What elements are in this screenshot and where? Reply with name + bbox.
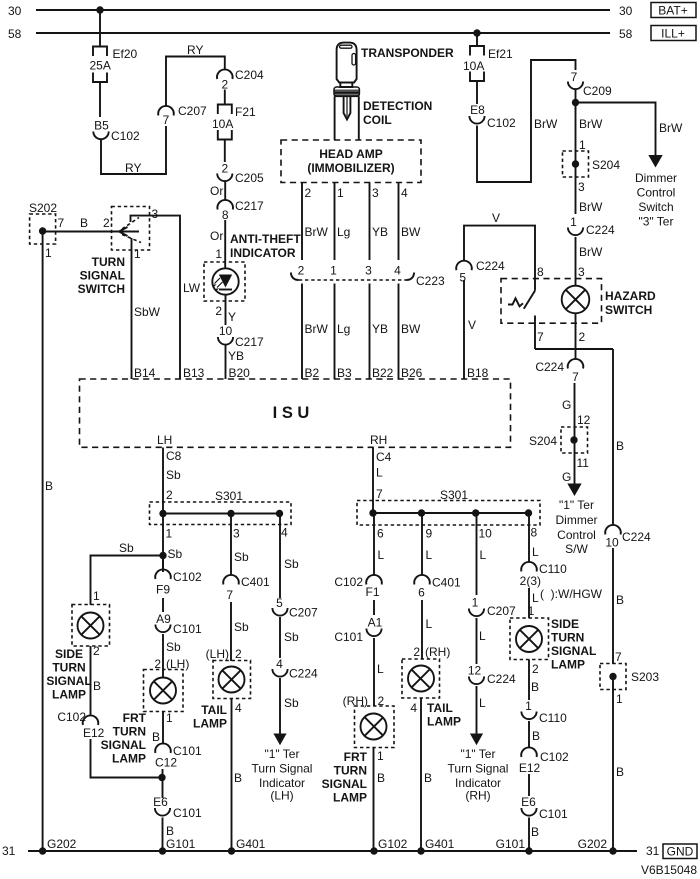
svg-text:1: 1	[134, 247, 141, 261]
svg-text:4: 4	[276, 657, 283, 671]
svg-text:G: G	[562, 398, 571, 412]
wire L S301 pin8 to C110	[529, 514, 539, 563]
svg-text:1: 1	[330, 264, 337, 278]
svg-text:12: 12	[577, 413, 591, 427]
wire B tail lamp RH to ground G401	[421, 698, 432, 851]
side turn signal lamp RH	[510, 617, 596, 676]
svg-text:1: 1	[570, 215, 577, 229]
wire B tail lamp LH to ground G401	[232, 699, 243, 852]
connector C401 pin 6 right	[414, 575, 461, 600]
svg-text:B: B	[93, 679, 101, 693]
head amp pin 2 wire BrW	[302, 183, 329, 261]
tail lamp LH	[193, 661, 251, 731]
svg-text:LAMP: LAMP	[112, 752, 146, 766]
svg-text:C217: C217	[235, 335, 264, 349]
svg-text:B22: B22	[372, 366, 394, 380]
svg-text:C401: C401	[241, 575, 270, 589]
svg-text:G202: G202	[47, 837, 77, 851]
svg-text:Sb: Sb	[234, 620, 249, 634]
svg-text:2: 2	[215, 304, 222, 318]
svg-text:L: L	[377, 662, 384, 676]
svg-text:SIGNAL: SIGNAL	[551, 644, 596, 658]
svg-text:10: 10	[605, 536, 619, 550]
svg-text:4: 4	[410, 701, 417, 715]
svg-text:S301: S301	[440, 488, 468, 502]
connector C209 pin 7	[568, 70, 612, 98]
connector C101 pin E6 left	[153, 795, 202, 820]
svg-text:B: B	[45, 479, 53, 493]
ground G202 right	[578, 837, 617, 855]
svg-text:6: 6	[377, 527, 384, 541]
svg-text:L: L	[426, 548, 433, 562]
svg-text:Lg: Lg	[337, 225, 350, 239]
svg-text:GND: GND	[667, 845, 694, 859]
svg-text:12: 12	[468, 664, 482, 678]
svg-text:LH: LH	[157, 433, 172, 447]
svg-text:C102: C102	[111, 129, 140, 143]
connector C101 pin A9	[155, 612, 202, 636]
wire B C110 to C102 E12	[529, 721, 540, 748]
svg-text:S204: S204	[592, 158, 620, 172]
svg-text:SbW: SbW	[134, 305, 161, 319]
svg-text:Or: Or	[210, 229, 223, 243]
svg-text:BW: BW	[401, 225, 421, 239]
svg-text:L: L	[479, 629, 486, 643]
svg-text:2: 2	[221, 78, 228, 92]
wire LH C8 ISU to S301	[163, 448, 182, 514]
hazard switch	[501, 265, 656, 349]
connector C224 pin 4	[272, 657, 318, 681]
svg-text:B: B	[531, 825, 539, 839]
svg-text:Switch: Switch	[638, 200, 673, 214]
wire YB C217 to ISU B20	[226, 345, 251, 380]
svg-text:HEAD AMP: HEAD AMP	[319, 147, 383, 161]
connector C401 pin 7 left	[223, 575, 270, 602]
splice S204 lower	[529, 427, 588, 453]
side turn signal lamp LH	[46, 605, 109, 702]
ground G401 left	[228, 837, 266, 855]
svg-text:1: 1	[377, 749, 384, 763]
svg-text:BrW: BrW	[579, 117, 603, 131]
svg-text:LAMP: LAMP	[333, 791, 367, 805]
svg-text:BrW: BrW	[305, 225, 329, 239]
svg-text:S204: S204	[529, 434, 557, 448]
svg-text:10A: 10A	[463, 59, 484, 73]
svg-text:58: 58	[619, 27, 633, 41]
wire B frt lamp LH to C101 C12	[152, 712, 163, 745]
turn signal switch	[78, 207, 159, 297]
svg-text:SIGNAL: SIGNAL	[101, 738, 146, 752]
svg-text:1: 1	[93, 589, 100, 603]
svg-text:C224: C224	[586, 223, 615, 237]
svg-text:2(3): 2(3)	[520, 574, 541, 588]
svg-text:25A: 25A	[90, 59, 111, 73]
wire B hazard pin7 to S203	[613, 349, 624, 664]
svg-text:RH: RH	[370, 433, 387, 447]
ISU box	[80, 379, 511, 447]
svg-text:E8: E8	[470, 103, 485, 117]
svg-text:SIDE: SIDE	[551, 617, 579, 631]
svg-text:C204: C204	[235, 68, 264, 82]
ground G101 right	[496, 837, 533, 855]
wire V to hazard switch pin 8	[464, 211, 535, 291]
svg-text:RY: RY	[187, 43, 203, 57]
svg-text:FRT: FRT	[344, 750, 368, 764]
connector C205 pin 2	[217, 162, 264, 186]
arrow to turn signal indicator LH	[252, 734, 313, 803]
connector C102 pin E12 right	[519, 747, 569, 775]
svg-text:5: 5	[459, 271, 466, 285]
svg-text:B20: B20	[229, 366, 251, 380]
detection coil	[334, 87, 432, 140]
frt turn signal lamp LH	[101, 670, 183, 766]
wire L C401 to tail lamp RH	[413, 600, 450, 659]
wire line58 to fuse Ef21	[476, 33, 478, 46]
wire Or C217 to anti-theft indicator	[210, 220, 225, 269]
svg-text:V: V	[468, 318, 476, 332]
wire SbW turn signal switch pin1 to ISU B14	[132, 238, 161, 380]
svg-text:B: B	[166, 824, 174, 838]
svg-text:C207: C207	[178, 104, 207, 118]
svg-text:L: L	[532, 545, 539, 559]
svg-text:BrW: BrW	[659, 121, 683, 135]
svg-text:L: L	[426, 617, 433, 631]
wire hazard pin2 to C224 pin7	[575, 313, 577, 359]
arrow to dimmer control s/w "1" ter	[556, 484, 598, 557]
fuse Ef21 10A	[463, 46, 513, 81]
svg-text:SIGNAL: SIGNAL	[322, 777, 367, 791]
wire E12 to E6	[528, 774, 530, 796]
splice S204 upper	[563, 151, 621, 214]
wire F1 to A1	[373, 600, 375, 615]
bus line 30	[8, 4, 633, 18]
svg-text:5: 5	[276, 596, 283, 610]
wire Or C205 to C217	[210, 181, 225, 201]
svg-text:BAT+: BAT+	[658, 4, 687, 18]
connector C224 pin 10	[605, 525, 651, 550]
svg-text:SIDE: SIDE	[55, 647, 83, 661]
svg-text:ANTI-THEFT: ANTI-THEFT	[230, 232, 301, 246]
svg-text:B14: B14	[134, 366, 156, 380]
head amp pin 4 wire BW	[399, 183, 422, 261]
svg-text:Turn Signal: Turn Signal	[252, 762, 313, 776]
GND terminal box	[663, 844, 697, 859]
svg-text:Dimmer: Dimmer	[635, 171, 677, 185]
wire L C110 to side turn signal lamp RH	[528, 588, 539, 618]
wire B side lamp RH to C110 pin1	[529, 660, 539, 701]
svg-text:( ):W/HGW: ( ):W/HGW	[540, 587, 603, 601]
svg-text:COIL: COIL	[363, 113, 392, 127]
svg-text:S203: S203	[631, 670, 659, 684]
svg-text:F21: F21	[235, 105, 256, 119]
svg-text:1: 1	[472, 596, 479, 610]
svg-text:Sb: Sb	[166, 640, 181, 654]
svg-text:30: 30	[8, 4, 22, 18]
svg-text:7: 7	[376, 487, 383, 501]
svg-text:4: 4	[401, 186, 408, 200]
wire Sb C401 to tail lamp LH	[206, 602, 249, 661]
arrow to turn signal indicator RH	[448, 734, 509, 803]
ground G101 left	[159, 837, 196, 855]
head amp pin 1 wire Lg	[335, 183, 351, 261]
splice connector S301 left	[150, 489, 292, 541]
connector C101 pin E6 right	[521, 795, 568, 821]
svg-text:2: 2	[298, 264, 305, 278]
svg-text:Sb: Sb	[166, 468, 181, 482]
svg-text:3: 3	[365, 264, 372, 278]
wire Ef20 to B5	[99, 82, 101, 117]
wire line30 to fuse Ef20	[99, 10, 101, 47]
svg-text:1: 1	[45, 246, 52, 260]
svg-text:V6B15048: V6B15048	[641, 863, 697, 877]
wire G C224 pin7 to S204	[562, 383, 591, 484]
svg-text:"1" Ter: "1" Ter	[559, 498, 594, 512]
svg-text:2: 2	[166, 488, 173, 502]
ground G401 right	[417, 837, 454, 855]
wire L S301 pin6 to C102 F1	[374, 514, 385, 576]
svg-text:Sb: Sb	[234, 550, 249, 564]
wire L S301 pin9 to C401	[422, 514, 433, 576]
wire B frt lamp RH to ground G102	[374, 748, 386, 852]
connector C224 pin 7	[535, 359, 583, 384]
svg-text:2: 2	[103, 216, 110, 230]
svg-text:TURN: TURN	[334, 764, 367, 778]
svg-text:B: B	[616, 765, 624, 779]
wire F9 to A9	[162, 598, 164, 612]
tail lamp RH	[402, 659, 461, 729]
svg-text:Or: Or	[210, 184, 223, 198]
wire B side lamp LH to C102 E12	[91, 646, 102, 716]
svg-text:C12: C12	[155, 756, 177, 770]
ILL+ terminal box	[651, 26, 696, 41]
svg-text:7: 7	[226, 588, 233, 602]
svg-text:2: 2	[579, 330, 586, 344]
svg-text:11: 11	[577, 456, 590, 470]
wire BrW C209 to S204	[576, 103, 587, 215]
splice S202	[29, 201, 57, 260]
svg-text:(LH): (LH)	[270, 789, 293, 803]
svg-text:B5: B5	[94, 119, 109, 133]
svg-text:7: 7	[537, 330, 544, 344]
svg-text:TAIL: TAIL	[427, 701, 453, 715]
connector C217 pin 8	[217, 199, 264, 222]
svg-text:B: B	[616, 439, 624, 453]
arrow to dimmer control switch "3" ter	[635, 155, 677, 229]
BAT+ terminal box	[651, 3, 696, 18]
svg-text:C102: C102	[487, 116, 516, 130]
wire B from S202 to turn signal switch	[43, 216, 139, 232]
svg-text:9: 9	[426, 527, 433, 541]
svg-text:G401: G401	[236, 837, 266, 851]
svg-text:TURN: TURN	[92, 255, 125, 269]
svg-text:3: 3	[152, 207, 159, 221]
ground G102	[370, 837, 407, 855]
svg-text:2: 2	[235, 647, 242, 661]
svg-text:(LH): (LH)	[206, 647, 229, 661]
svg-text:58: 58	[8, 27, 22, 41]
svg-text:TURN: TURN	[551, 631, 584, 645]
connector C101 pin A1	[334, 616, 382, 645]
svg-text:ILL+: ILL+	[661, 27, 685, 41]
svg-text:LAMP: LAMP	[427, 715, 461, 729]
wire BW C223 pin4 to ISU B26	[399, 284, 423, 381]
ground bus 31	[2, 844, 660, 858]
wire Y LED to C217 pin10	[215, 295, 236, 325]
svg-text:F1: F1	[365, 585, 379, 599]
svg-text:1: 1	[166, 711, 173, 725]
bus line 58	[8, 27, 633, 41]
svg-text:G202: G202	[578, 837, 608, 851]
connector C207 pin 1	[469, 596, 516, 619]
svg-text:I S U: I S U	[273, 404, 310, 422]
svg-text:B3: B3	[337, 366, 352, 380]
svg-text:7: 7	[615, 650, 622, 664]
connector C207 pin 7	[158, 104, 207, 127]
svg-text:10A: 10A	[212, 117, 233, 131]
svg-text:6: 6	[418, 586, 425, 600]
wire F21 to C205	[224, 140, 226, 163]
svg-text:3: 3	[578, 265, 585, 279]
svg-text:L: L	[378, 548, 385, 562]
wire B S203 to ground G202	[613, 677, 624, 852]
svg-text:B: B	[616, 593, 624, 607]
svg-text:1: 1	[337, 186, 344, 200]
svg-text:BrW: BrW	[579, 200, 603, 214]
svg-text:B2: B2	[305, 366, 320, 380]
wire L C207 pin1 to C224 pin12	[477, 618, 487, 664]
svg-text:C224: C224	[622, 530, 651, 544]
wire turn signal switch pin3 to ISU B13	[131, 216, 205, 380]
wire hazard pin7 to B line	[535, 348, 613, 350]
wire Lg C223 pin1 to ISU B3	[335, 284, 353, 381]
svg-text:E12: E12	[519, 761, 541, 775]
connector C207 pin 5	[272, 596, 318, 620]
wire G S204 to indicator arrow	[562, 456, 589, 484]
svg-text:RY: RY	[125, 161, 141, 175]
svg-text:C4: C4	[376, 450, 392, 464]
head amp (immobilizer) box	[281, 140, 421, 183]
connector C102 pin F9	[155, 569, 202, 596]
svg-text:Control: Control	[637, 186, 676, 200]
junction on line 58	[473, 29, 480, 36]
wire Sb C207 pin5 to C224 pin4	[280, 617, 299, 658]
svg-text:SIGNAL: SIGNAL	[46, 674, 91, 688]
splice S203	[600, 650, 659, 706]
svg-text:S202: S202	[29, 201, 57, 215]
svg-text:3: 3	[233, 527, 240, 541]
svg-text:Turn Signal: Turn Signal	[448, 762, 509, 776]
svg-text:Ef21: Ef21	[488, 47, 513, 61]
svg-text:Lg: Lg	[337, 322, 350, 336]
svg-text:A1: A1	[368, 616, 383, 630]
svg-text:Control: Control	[557, 528, 596, 542]
svg-text:G401: G401	[425, 837, 455, 851]
svg-text:C101: C101	[539, 807, 568, 821]
wire Sb S301 pin1 down	[162, 514, 164, 573]
svg-text:C101: C101	[334, 630, 363, 644]
splice connector S301 right	[357, 488, 540, 541]
wire YB C223 pin3 to ISU B22	[370, 284, 394, 381]
svg-text:E6: E6	[153, 795, 168, 809]
svg-text:4: 4	[281, 526, 288, 540]
svg-text:L: L	[479, 696, 486, 710]
svg-text:10: 10	[479, 527, 493, 541]
svg-text:3: 3	[578, 180, 585, 194]
svg-text:8: 8	[531, 526, 538, 540]
connector C102 pin E8	[469, 103, 516, 130]
svg-text:V: V	[492, 211, 500, 225]
wire Ef21 to E8	[476, 81, 478, 104]
svg-text:S301: S301	[215, 489, 243, 503]
svg-text:B: B	[234, 771, 242, 785]
wire V C224 pin5 to ISU B18	[464, 280, 489, 380]
connector C101 pin C12	[155, 743, 202, 769]
svg-text:Dimmer: Dimmer	[556, 513, 598, 527]
svg-text:1: 1	[525, 699, 532, 713]
svg-text:C205: C205	[235, 171, 264, 185]
svg-text:TAIL: TAIL	[201, 703, 227, 717]
connector C110 pin 2(3)	[520, 562, 567, 588]
svg-text:7: 7	[58, 216, 65, 230]
wire Sb S301 pin4 down	[280, 514, 299, 599]
wire side lamp LH to junction	[91, 739, 163, 778]
svg-text:B: B	[377, 771, 385, 785]
svg-text:C110: C110	[539, 711, 567, 725]
connector C224 pin 5	[456, 259, 505, 285]
svg-text:G101: G101	[496, 837, 526, 851]
connector C110 pin 1	[521, 699, 567, 725]
node BrW junction below C209	[572, 99, 603, 131]
svg-text:B: B	[152, 730, 160, 744]
svg-text:Sb: Sb	[284, 630, 299, 644]
svg-text:4: 4	[235, 701, 242, 715]
svg-text:LAMP: LAMP	[52, 688, 86, 702]
svg-text:10: 10	[219, 324, 233, 338]
svg-text:C102: C102	[334, 575, 363, 589]
svg-text:(RH): (RH)	[465, 789, 490, 803]
connector C224 pin 1	[568, 215, 615, 237]
svg-text:BrW: BrW	[534, 117, 558, 131]
svg-text:C223: C223	[416, 274, 445, 288]
svg-text:1: 1	[616, 692, 623, 706]
svg-text:2: 2	[413, 645, 420, 659]
svg-text:TURN: TURN	[113, 725, 146, 739]
svg-text:LW: LW	[183, 281, 201, 295]
svg-text:G102: G102	[378, 837, 408, 851]
svg-text:B13: B13	[183, 366, 205, 380]
svg-text:C224: C224	[487, 672, 516, 686]
svg-text:S/W: S/W	[565, 542, 588, 556]
svg-text:YB: YB	[372, 225, 388, 239]
wire BrW E8 to C209	[477, 60, 576, 182]
svg-text:1: 1	[166, 527, 173, 541]
svg-text:C224: C224	[476, 259, 505, 273]
svg-text:SWITCH: SWITCH	[605, 303, 652, 317]
svg-text:7: 7	[571, 70, 578, 84]
wire BrW C223 pin2 to ISU B2	[302, 284, 329, 381]
svg-text:2: 2	[305, 186, 312, 200]
svg-text:L: L	[376, 466, 383, 480]
wire BrW to dimmer control switch arrow	[576, 103, 684, 157]
svg-text:7: 7	[163, 113, 170, 127]
anti-theft indicator label	[230, 232, 301, 260]
fuse Ef20 25A	[90, 47, 138, 83]
junction on line 30	[96, 6, 103, 13]
svg-text:C401: C401	[432, 576, 461, 590]
svg-text:YB: YB	[228, 349, 244, 363]
svg-text:"3" Ter: "3" Ter	[639, 215, 674, 229]
connector C102 pin F1	[334, 575, 381, 599]
